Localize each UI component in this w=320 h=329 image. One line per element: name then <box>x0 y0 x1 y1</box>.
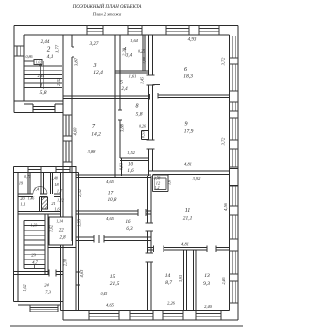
svg-text:4,93: 4,93 <box>188 38 197 43</box>
svg-text:10,8: 10,8 <box>108 198 117 203</box>
svg-text:6: 6 <box>184 67 187 73</box>
wall between room 8 and 10 <box>120 158 149 160</box>
bottom outer wall <box>61 311 239 321</box>
stair wall room 23 <box>45 214 48 275</box>
svg-text:2,44: 2,44 <box>41 40 50 45</box>
svg-text:17,9: 17,9 <box>184 129 194 135</box>
room 15 left wall door gap <box>76 272 80 285</box>
stair 23 arrow <box>34 264 36 269</box>
svg-text:ПОЭТАЖНЫЙ ПЛАН ОБЪЕКТА: ПОЭТАЖНЫЙ ПЛАН ОБЪЕКТА <box>72 3 142 10</box>
window left-mid W19 <box>63 141 72 162</box>
svg-text:11: 11 <box>185 208 191 214</box>
window left of stair block <box>14 46 24 56</box>
svg-text:21,5: 21,5 <box>110 281 120 287</box>
door ticks 16/15 <box>94 235 104 243</box>
door leaf room 5 to 6 <box>152 84 160 86</box>
stair door box room 2 <box>34 60 42 65</box>
stair treads room 2 <box>24 66 62 88</box>
svg-text:21: 21 <box>51 201 55 206</box>
svg-text:5,8: 5,8 <box>136 112 143 118</box>
window right W13 <box>230 281 239 303</box>
right outer wall <box>230 26 239 321</box>
closet room 12 <box>152 175 168 192</box>
door arc room 18 <box>40 186 48 194</box>
svg-text:3: 3 <box>93 63 97 69</box>
stair block bottom wall <box>14 101 63 104</box>
pier on right wall at rooms 9/11 <box>230 168 239 185</box>
window bottom W15 <box>130 311 153 321</box>
bottom-left section top wall <box>14 167 79 173</box>
window top W1 <box>87 26 103 36</box>
svg-text:План 2 этажа: План 2 этажа <box>92 12 122 17</box>
svg-text:2,8: 2,8 <box>60 236 67 241</box>
svg-text:12,4: 12,4 <box>93 69 103 76</box>
window right W9 <box>230 149 239 167</box>
door ticks 17/16 <box>138 209 146 216</box>
room10 left wall <box>115 158 122 178</box>
door ticks room 24 <box>49 270 56 277</box>
svg-text:1,6: 1,6 <box>127 169 134 174</box>
wall room3/4 and room7 right (vertical) <box>115 35 120 158</box>
partition left of room 18 door <box>51 173 53 194</box>
top wall corner ticks <box>14 26 238 36</box>
svg-text:2: 2 <box>47 46 51 54</box>
wall under rooms 18/19 <box>18 194 61 197</box>
duct in room 4 <box>143 35 145 71</box>
svg-text:10: 10 <box>128 163 134 168</box>
wall between rooms 19 and 18 <box>41 173 44 194</box>
outer top wall <box>14 26 238 36</box>
bottom-left section left wall <box>14 167 18 302</box>
window section-top W21 <box>56 167 70 173</box>
window right W7 <box>230 102 239 111</box>
svg-text:5,8: 5,8 <box>40 90 47 96</box>
svg-text:1: 1 <box>40 84 43 90</box>
partition right of room 19 <box>28 173 30 194</box>
window right W12 <box>230 251 239 274</box>
svg-text:17: 17 <box>108 191 114 197</box>
main horizontal wall between upper and middle rooms <box>63 95 230 99</box>
window section-top W20 <box>28 167 41 173</box>
svg-text:4,1: 4,1 <box>47 53 54 60</box>
stair block outer left wall <box>14 26 24 113</box>
svg-text:8,7: 8,7 <box>165 280 172 286</box>
svg-text:2,4: 2,4 <box>121 87 128 92</box>
svg-text:15: 15 <box>110 274 116 280</box>
svg-text:14,2: 14,2 <box>91 131 101 138</box>
stair arrow room 2 <box>39 64 42 88</box>
svg-text:8: 8 <box>136 104 139 110</box>
window right W8 <box>230 118 239 140</box>
svg-text:13: 13 <box>204 273 210 279</box>
door ticks stair to room3 <box>72 47 74 57</box>
window right W5 <box>230 36 239 58</box>
notch edge line <box>14 112 63 114</box>
svg-text:14: 14 <box>165 272 171 279</box>
bottom frame line <box>10 325 243 327</box>
room 22 bottom wall second line <box>48 247 76 249</box>
room 22 walls <box>49 217 73 245</box>
window top W4 <box>199 26 219 36</box>
window top W2 <box>128 26 142 36</box>
svg-text:23: 23 <box>31 253 36 258</box>
stair treads room 23 <box>24 221 45 269</box>
svg-text:24: 24 <box>44 283 49 288</box>
svg-text:9: 9 <box>185 122 188 128</box>
door ticks room 11 bottom <box>154 245 216 252</box>
closet room 12 inner line <box>154 178 166 190</box>
stair landing line room 2 <box>24 60 34 62</box>
window left-mid W18 <box>63 115 72 136</box>
window bottom W16 <box>163 311 183 321</box>
wall under rooms 20/21 <box>18 211 61 214</box>
hatched shaft in section <box>42 197 48 209</box>
window right W11 <box>230 215 239 239</box>
svg-text:3,27: 3,27 <box>90 42 99 47</box>
wall between rooms 17 and 16 <box>76 211 151 214</box>
room 24 top wall <box>14 272 63 275</box>
porch steps bottom-left <box>30 305 58 312</box>
bottom-left section bottom wall <box>14 302 63 306</box>
door arc room 19 <box>33 186 41 194</box>
window top W3 <box>166 26 189 36</box>
door tick room7 <box>118 110 122 120</box>
svg-text:16: 16 <box>126 220 132 225</box>
room 11 bottom wall <box>148 247 230 250</box>
svg-text:3,4: 3,4 <box>126 54 133 59</box>
svg-text:6,3: 6,3 <box>126 227 133 232</box>
wall between room 9 and 11 <box>149 171 230 174</box>
svg-text:21,1: 21,1 <box>183 216 193 222</box>
bottom wall left end <box>61 302 64 321</box>
window right W10 <box>230 186 239 206</box>
door ticks corridor wall <box>146 75 155 262</box>
shaft in room 8 <box>142 131 149 140</box>
wall between rooms 20 and 21 <box>40 196 42 211</box>
wall between stair block and room 3 <box>63 35 72 241</box>
wall between rooms 14 and 13 (duct) <box>183 250 196 310</box>
corridor wall x60 in section <box>61 173 64 306</box>
steps below stair block <box>33 104 55 113</box>
stair divider room 2 <box>43 61 45 89</box>
door gap ticks room5-6 wall <box>150 93 159 100</box>
window right W6 <box>230 64 239 91</box>
wall between rooms 16 and 15 <box>76 237 151 240</box>
thick old wall band left of rooms 17/16/15 <box>76 166 79 311</box>
svg-text:9,3: 9,3 <box>203 281 210 287</box>
svg-text:22: 22 <box>59 229 64 234</box>
window bottom W14 <box>89 311 119 321</box>
room 17 top wall / room 10 bottom wall <box>76 175 151 178</box>
svg-text:5: 5 <box>120 80 123 86</box>
svg-text:18,3: 18,3 <box>183 74 193 80</box>
corridor wall left of rooms 6/9/11 (vertical) <box>148 35 153 311</box>
svg-text:4: 4 <box>124 46 127 53</box>
wall between room 4 and 5 <box>115 71 149 73</box>
window bottom W17 <box>196 311 221 321</box>
